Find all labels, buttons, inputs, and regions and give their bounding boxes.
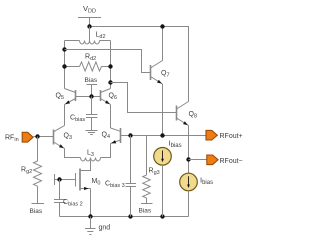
- svg-text:RFout−: RFout−: [220, 158, 243, 165]
- node top rail junction: [160, 24, 164, 28]
- node tank-right Rd2 junction: [108, 64, 112, 68]
- wire Q8 emitter down: [188, 126, 190, 160]
- RFout- port arrow: [207, 155, 218, 165]
- svg-text:Bias: Bias: [139, 208, 152, 215]
- transistor M0: [76, 169, 91, 217]
- node RFin junction: [35, 134, 39, 138]
- resistor Rg2: [34, 137, 42, 204]
- Bias terminal top: [87, 85, 98, 97]
- wire L3 center tap to M0 drain: [80, 160, 91, 170]
- node Cbias3 top junction: [128, 133, 132, 137]
- node VDD junction: [87, 24, 91, 28]
- wire left column Q5 emitter to Q3 collector: [64, 105, 66, 126]
- wire Q7 collector vertical: [162, 27, 164, 61]
- wire Q3 emitter to L3: [65, 149, 81, 158]
- wire RFin to Q3 base: [34, 136, 54, 138]
- wire route tank-left to Q7 base: [65, 50, 151, 73]
- node gate junction: [57, 177, 61, 181]
- wire route tank-right to Q8 base: [111, 83, 177, 113]
- wire Q4 emitter to L3: [101, 144, 111, 158]
- transistor Q6: [101, 89, 111, 105]
- node tank-left Q7 route junction: [62, 47, 66, 51]
- wire Q4 base / RFout+ line: [121, 135, 206, 137]
- resistor Rg3: [143, 136, 150, 204]
- wire Q5-Q6 base tie: [76, 96, 101, 98]
- wire VDD center-tap: [89, 27, 91, 42]
- node bottom rail Cbias3 junction: [128, 214, 132, 218]
- svg-text:gnd: gnd: [99, 225, 111, 232]
- inductor Ld2: [65, 41, 111, 45]
- RFin port arrow: [22, 132, 33, 142]
- wire top rail: [90, 26, 190, 28]
- node RFout+ junction: [160, 133, 164, 137]
- node bottom rail gnd junction: [88, 214, 92, 218]
- node RFout- junction: [186, 157, 190, 161]
- node tank-left Rd2 junction: [62, 64, 66, 68]
- capacitor Cbias2: [54, 180, 66, 217]
- Bias terminal bottom-left: [32, 203, 45, 205]
- transistor Q5: [65, 89, 76, 105]
- ground under Cbias: [86, 131, 98, 135]
- wire Q7 emitter down: [162, 84, 164, 136]
- capacitor Cbias: [86, 97, 98, 131]
- current source Ibias 2: [180, 160, 198, 217]
- node tank-right Q8 route junction: [108, 80, 112, 84]
- transistor Q8: [177, 102, 189, 126]
- transistor Q3: [54, 126, 65, 149]
- inductor L3: [81, 158, 101, 162]
- wire tank left column: [64, 41, 66, 89]
- wire right-top vertical to Q8 collector: [188, 27, 190, 102]
- wire right column Q6 emitter to Q4 collector: [110, 105, 112, 129]
- capacitor Cbias3: [126, 136, 137, 217]
- svg-text:Bias: Bias: [30, 208, 43, 215]
- svg-text:Bias: Bias: [85, 77, 98, 84]
- wire gate: [55, 179, 76, 181]
- ground gnd: [85, 217, 96, 235]
- wire RFout-: [189, 159, 207, 161]
- RFout+ port arrow: [206, 130, 217, 140]
- wire bottom rail: [60, 216, 189, 218]
- transistor Q7: [151, 61, 163, 85]
- Bias terminal bottom-mid: [141, 203, 153, 205]
- resistor Rd2: [65, 62, 111, 71]
- transistor Q4: [111, 128, 121, 144]
- M0 gate terminal bar: [54, 174, 56, 185]
- VDD power terminal: [78, 18, 101, 27]
- wire tank right column: [110, 41, 112, 89]
- svg-text:RFout+: RFout+: [220, 133, 243, 140]
- node base tie junction: [89, 94, 93, 98]
- node bottom rail Ibias junction: [160, 214, 164, 218]
- current source Ibias 1: [154, 148, 172, 217]
